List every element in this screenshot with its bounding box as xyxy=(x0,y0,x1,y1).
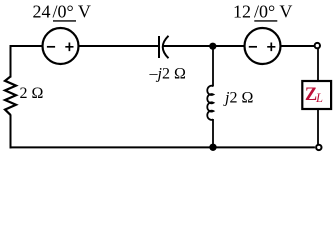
svg-text:/0° V: /0° V xyxy=(53,2,91,22)
wire ZL box to terminal b xyxy=(317,109,319,145)
wire V1 to capacitor xyxy=(78,45,159,47)
label 24 angle 0 V xyxy=(33,2,91,22)
wire left vertical bottom xyxy=(10,115,12,149)
svg-text:/0° V: /0° V xyxy=(254,2,292,22)
V1 minus sign xyxy=(47,46,55,48)
capacitor C -j2ohm right curved plate xyxy=(163,36,169,58)
svg-text:–j2 Ω: –j2 Ω xyxy=(149,65,186,82)
wire node down to inductor xyxy=(212,46,214,87)
wire capacitor to node xyxy=(163,45,213,47)
V2 plus sign xyxy=(267,43,275,52)
wire inductor to bottom node xyxy=(212,119,214,147)
V2 minus sign xyxy=(249,46,257,48)
svg-text:2 Ω: 2 Ω xyxy=(20,85,44,102)
wire terminal a to ZL box xyxy=(317,48,319,81)
inductor L j2ohm xyxy=(207,86,213,120)
terminal a (open circle top right) xyxy=(315,43,320,48)
wire bottom xyxy=(10,146,315,148)
svg-text:12: 12 xyxy=(233,2,251,22)
voltage source V2 12deg xyxy=(245,28,281,64)
wire V2 to terminal a xyxy=(280,45,314,47)
wire node to V2 xyxy=(213,45,245,47)
wire left vertical top xyxy=(10,45,12,78)
node bottom junction xyxy=(209,144,216,151)
terminal b (open circle bottom right) xyxy=(316,145,321,150)
node top junction xyxy=(209,43,216,50)
load ZL box xyxy=(302,81,331,109)
svg-text:j2 Ω: j2 Ω xyxy=(223,89,253,106)
capacitor C -j2ohm left plate xyxy=(158,36,160,58)
V1 plus sign xyxy=(65,43,73,52)
svg-text:24: 24 xyxy=(33,2,51,22)
wire top-left segment xyxy=(11,45,44,47)
label 12 angle 0 V xyxy=(233,2,292,22)
voltage source V1 24deg xyxy=(43,28,79,64)
resistor R 2ohm xyxy=(5,77,16,115)
